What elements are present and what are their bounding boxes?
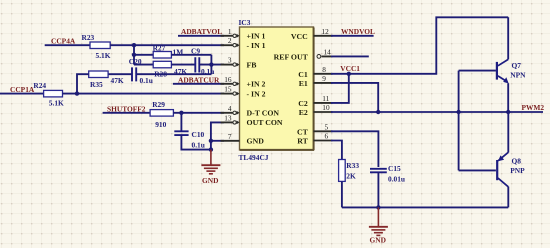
capacitor C9 (191, 47, 214, 76)
wire ADBATCUR to pin 16 (+IN2) (173, 83, 224, 85)
pin 1 (221, 34, 240, 38)
wire R23 to pin 2 (-IN1) (110, 44, 224, 46)
wire pin 12 VCC / net WNDVOL (331, 35, 374, 37)
svg-text:GND: GND (247, 137, 265, 146)
wire Q7 base (459, 70, 496, 72)
svg-text:C2: C2 (298, 99, 308, 108)
svg-text:C15: C15 (388, 164, 401, 173)
resistor R24 (33, 81, 64, 108)
junction node C1/C2 (347, 72, 351, 76)
svg-text:C10: C10 (192, 130, 205, 139)
wire pin 9 E1 to E2 row (331, 83, 378, 112)
svg-text:Q7: Q7 (512, 61, 522, 70)
svg-text:0.01u: 0.01u (388, 174, 405, 183)
svg-text:13: 13 (224, 113, 232, 122)
svg-text:4: 4 (228, 104, 232, 113)
svg-text:PWM2: PWM2 (522, 103, 545, 112)
svg-text:D-T CON: D-T CON (247, 109, 280, 118)
wire vertical feedback bus x=134 (133, 45, 135, 64)
svg-text:11: 11 (322, 94, 329, 103)
svg-text:8: 8 (322, 65, 326, 74)
wire pin 14 REF OUT stub (331, 55, 369, 57)
svg-text:VCC1: VCC1 (340, 64, 360, 73)
wire base bus vertical x=458.6 (458, 71, 460, 171)
wire pin 10 E2 long PWM2 row (331, 111, 543, 113)
pin 2 (221, 43, 240, 47)
svg-text:7: 7 (228, 132, 232, 141)
svg-text:E1: E1 (299, 79, 308, 88)
svg-text:GND: GND (202, 176, 218, 185)
wire R27 to corner x=211.4 (171, 54, 211, 56)
svg-text:REF OUT: REF OUT (274, 53, 309, 62)
svg-text:E2: E2 (299, 108, 308, 117)
wire C10 hang from D-T node (180, 113, 182, 132)
junction node gnd bus (376, 205, 380, 209)
wire bottom ground bus (342, 206, 508, 208)
resistor R29 (150, 100, 173, 129)
wire SHUTOFF2 to R29 (103, 112, 151, 114)
svg-text:+IN 2: +IN 2 (247, 80, 266, 89)
svg-text:14: 14 (324, 47, 332, 56)
junction node base tap (456, 110, 460, 114)
svg-text:10: 10 (322, 103, 330, 112)
svg-text:5: 5 (325, 122, 329, 131)
IC U/IC3 body TL494CJ (240, 27, 315, 150)
svg-text:TL494CJ: TL494CJ (239, 153, 269, 162)
svg-text:R33: R33 (346, 161, 359, 170)
svg-text:PNP: PNP (510, 166, 525, 175)
junction node gnd rail (209, 147, 213, 151)
svg-text:C20: C20 (129, 57, 142, 66)
resistor R33 (vertical) (339, 160, 360, 182)
svg-text:C9: C9 (191, 47, 200, 56)
junction node R24/R35 (75, 91, 79, 95)
svg-text:910: 910 (155, 120, 166, 129)
svg-text:CCP4A: CCP4A (51, 37, 76, 46)
svg-text:FB: FB (247, 60, 257, 69)
svg-text:47K: 47K (111, 76, 124, 85)
svg-text:ADBATVOL: ADBATVOL (181, 27, 222, 36)
pin 3 (221, 63, 240, 67)
svg-text:5.1K: 5.1K (96, 51, 111, 60)
svg-text:R29: R29 (152, 100, 165, 109)
svg-text:0.1u: 0.1u (192, 140, 205, 149)
svg-text:12: 12 (322, 27, 330, 36)
right IC pins black segments (314, 36, 333, 141)
wire C10 bottom to ground rail (181, 135, 211, 150)
svg-text:2: 2 (228, 36, 232, 45)
wire R24 to pin 15 (-IN2) (63, 93, 225, 95)
capacitor C15 (370, 164, 405, 183)
junction node pin7/gnd (209, 139, 213, 143)
transistor Q8 PNP (497, 112, 525, 207)
wire corner from CCP1A row up to R35 (77, 74, 89, 93)
wire R35 to C20 (108, 73, 132, 75)
svg-text:16: 16 (224, 75, 232, 84)
capacitor C20 (129, 57, 153, 85)
wire pin 13 (OUT CON) down to ground rail (211, 122, 224, 149)
svg-text:NPN: NPN (510, 70, 526, 79)
pin 15 (221, 92, 240, 96)
wire Q8 base (459, 169, 496, 171)
wire R33 bottom (341, 181, 343, 207)
svg-text:CT: CT (297, 127, 309, 136)
ground symbol left GND (201, 150, 220, 185)
wire pin 5 CT to C15 (331, 131, 378, 167)
svg-text:VCC: VCC (291, 32, 308, 41)
svg-text:9: 9 (322, 74, 326, 83)
pin 13 (221, 121, 240, 125)
svg-text:R27: R27 (153, 43, 166, 52)
wire C9 to pin 3 (FB) (199, 64, 224, 66)
pin 4 (221, 111, 240, 115)
svg-text:R35: R35 (90, 80, 103, 89)
svg-text:Q8: Q8 (512, 157, 522, 166)
wire C20 to vertical (136, 73, 211, 75)
resistor R23 (82, 33, 111, 60)
wire CCP1A to R24 (0, 93, 44, 95)
svg-text:1: 1 (228, 27, 232, 36)
wire vertical x=211.4 joining R27 C9 C20 (210, 55, 212, 74)
wire CCP4A to R23 (45, 44, 90, 46)
pin 14 output circle decoration (317, 55, 321, 59)
svg-text:6: 6 (325, 132, 329, 141)
svg-text:WNDVOL: WNDVOL (341, 27, 375, 36)
wire to R28 (134, 64, 153, 66)
svg-text:2K: 2K (346, 171, 356, 180)
pin 16 (221, 82, 240, 86)
junction node at R23 output (132, 43, 136, 47)
wire pin 6 RT to R33 (331, 141, 342, 160)
wire C15 bottom (377, 172, 379, 207)
wire pin 11 C2 riser (331, 74, 349, 103)
wire pin 7 (GND) (211, 140, 224, 142)
svg-text:R24: R24 (33, 81, 46, 90)
svg-text:GND: GND (370, 236, 386, 245)
svg-text:5.1K: 5.1K (49, 99, 64, 108)
wire R28 to C9 (171, 64, 195, 66)
resistor R28 (153, 61, 187, 78)
pin 7 (221, 140, 240, 142)
svg-text:+IN 1: +IN 1 (247, 32, 266, 41)
junction node emitters (506, 110, 510, 114)
svg-text:IC3: IC3 (239, 18, 251, 27)
ground symbol bottom GND (369, 207, 388, 244)
resistor R27 (153, 43, 184, 58)
svg-text:- IN 1: - IN 1 (247, 41, 266, 50)
transistor Q7 NPN (497, 17, 526, 112)
svg-text:- IN 2: - IN 2 (247, 89, 266, 98)
wire R29 to pin 4 (D-T CON) (173, 112, 224, 114)
svg-text:RT: RT (297, 137, 308, 146)
junction node FB (209, 62, 213, 66)
wire net ADBATVOL to pin 1 (178, 35, 224, 37)
junction node D-T (179, 111, 183, 115)
wire pin 8 C1 to top bus riser (331, 17, 508, 74)
svg-text:R23: R23 (82, 33, 95, 42)
svg-text:C1: C1 (298, 70, 308, 79)
wire to R27 (134, 54, 153, 56)
capacitor C10 (174, 130, 205, 149)
svg-text:OUT CON: OUT CON (247, 118, 283, 127)
svg-text:CCP1A: CCP1A (10, 85, 35, 94)
svg-text:0.1u: 0.1u (140, 76, 153, 85)
svg-text:15: 15 (224, 85, 232, 94)
svg-text:3: 3 (228, 56, 232, 65)
junction node R27 tap (132, 53, 136, 57)
junction node E1/E2 (376, 110, 380, 114)
resistor R35 (89, 71, 124, 89)
